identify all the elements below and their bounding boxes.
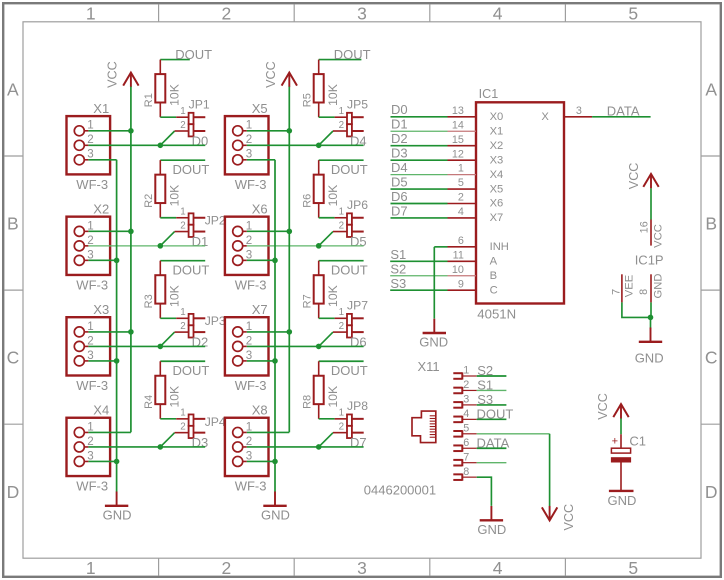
svg-text:D0: D0	[391, 102, 408, 117]
svg-text:WF-3: WF-3	[235, 378, 267, 393]
svg-text:X11: X11	[418, 359, 440, 374]
svg-text:2: 2	[246, 435, 252, 448]
svg-text:2: 2	[87, 334, 93, 347]
svg-text:X6: X6	[490, 198, 504, 210]
svg-text:4: 4	[493, 558, 503, 578]
svg-text:JP7: JP7	[347, 298, 368, 312]
svg-text:DOUT: DOUT	[173, 162, 210, 177]
svg-text:VCC: VCC	[562, 504, 576, 531]
svg-text:D7: D7	[350, 435, 367, 450]
svg-text:2: 2	[222, 4, 232, 24]
svg-text:4: 4	[458, 206, 464, 218]
svg-text:VCC: VCC	[627, 163, 641, 190]
svg-text:2: 2	[339, 120, 344, 131]
svg-text:X2: X2	[93, 201, 109, 216]
svg-text:DATA: DATA	[607, 103, 640, 118]
svg-text:JP8: JP8	[347, 399, 368, 413]
svg-text:10K: 10K	[167, 84, 181, 106]
svg-text:3: 3	[87, 349, 93, 362]
svg-text:DOUT: DOUT	[175, 47, 212, 62]
svg-text:R1: R1	[143, 93, 155, 107]
svg-text:WF-3: WF-3	[76, 378, 108, 393]
svg-text:B: B	[705, 214, 717, 234]
svg-text:DOUT: DOUT	[173, 363, 210, 378]
svg-text:D3: D3	[192, 435, 209, 450]
svg-text:DOUT: DOUT	[331, 263, 368, 278]
svg-text:3: 3	[246, 449, 252, 462]
svg-text:2: 2	[180, 321, 185, 332]
svg-text:9: 9	[458, 278, 464, 290]
svg-text:D4: D4	[350, 133, 367, 148]
svg-text:1: 1	[339, 106, 344, 117]
svg-text:5: 5	[458, 177, 464, 189]
svg-text:10K: 10K	[326, 84, 340, 106]
svg-text:X6: X6	[252, 201, 268, 216]
svg-text:X7: X7	[490, 212, 504, 224]
svg-text:R4: R4	[143, 395, 155, 409]
svg-text:D2: D2	[391, 131, 408, 146]
svg-text:S3: S3	[390, 276, 406, 291]
svg-text:S1: S1	[390, 247, 406, 262]
svg-text:1: 1	[87, 119, 93, 132]
svg-text:S2: S2	[477, 363, 493, 378]
svg-text:7: 7	[463, 451, 469, 463]
svg-text:GND: GND	[608, 493, 637, 508]
svg-text:8: 8	[463, 466, 469, 478]
svg-text:R2: R2	[143, 194, 155, 208]
svg-text:14: 14	[452, 119, 464, 131]
svg-text:2: 2	[222, 558, 232, 578]
svg-text:D0: D0	[192, 133, 209, 148]
svg-text:3: 3	[87, 148, 93, 161]
svg-text:X1: X1	[93, 101, 109, 116]
svg-text:+: +	[612, 436, 618, 448]
svg-text:VCC: VCC	[264, 61, 278, 88]
svg-text:JP3: JP3	[205, 314, 226, 328]
svg-text:X2: X2	[490, 140, 504, 152]
svg-text:1: 1	[339, 307, 344, 318]
svg-text:JP5: JP5	[347, 97, 368, 111]
svg-text:GND: GND	[103, 508, 132, 523]
svg-text:1: 1	[246, 320, 252, 333]
svg-text:3: 3	[357, 4, 367, 24]
svg-text:X5: X5	[252, 101, 268, 116]
svg-text:D7: D7	[391, 203, 408, 218]
svg-text:4: 4	[493, 4, 503, 24]
svg-text:10K: 10K	[167, 185, 181, 207]
svg-text:2: 2	[458, 192, 464, 204]
svg-text:D6: D6	[350, 335, 367, 350]
svg-text:1: 1	[246, 420, 252, 433]
svg-text:1: 1	[87, 320, 93, 333]
svg-text:JP1: JP1	[189, 97, 210, 111]
svg-text:S2: S2	[390, 261, 406, 276]
svg-text:B: B	[7, 214, 19, 234]
svg-text:IC1P: IC1P	[635, 252, 664, 267]
svg-text:JP4: JP4	[205, 415, 226, 429]
svg-text:3: 3	[463, 394, 469, 406]
svg-text:X3: X3	[93, 302, 109, 317]
svg-text:A: A	[705, 80, 717, 100]
svg-text:5: 5	[628, 4, 638, 24]
svg-text:JP2: JP2	[205, 214, 226, 228]
svg-text:2: 2	[87, 234, 93, 247]
svg-text:C: C	[490, 284, 498, 296]
svg-text:10K: 10K	[167, 285, 181, 307]
svg-text:JP6: JP6	[347, 198, 368, 212]
svg-text:D5: D5	[391, 174, 408, 189]
svg-text:1: 1	[463, 365, 469, 377]
svg-text:VCC: VCC	[653, 224, 665, 248]
svg-text:1: 1	[180, 307, 185, 318]
svg-text:4051N: 4051N	[477, 306, 516, 321]
svg-text:8: 8	[638, 289, 650, 295]
svg-text:X8: X8	[252, 403, 268, 418]
svg-text:B: B	[490, 270, 497, 282]
svg-text:3: 3	[246, 148, 252, 161]
svg-text:3: 3	[576, 105, 582, 117]
svg-text:X3: X3	[490, 154, 504, 166]
svg-text:2: 2	[246, 234, 252, 247]
svg-text:R6: R6	[302, 194, 314, 208]
svg-text:2: 2	[87, 133, 93, 146]
svg-text:1: 1	[458, 163, 464, 175]
svg-text:6: 6	[458, 235, 464, 247]
svg-text:INH: INH	[490, 241, 509, 253]
svg-text:DOUT: DOUT	[334, 47, 371, 62]
svg-text:A: A	[7, 80, 19, 100]
svg-text:3: 3	[246, 248, 252, 261]
svg-text:WF-3: WF-3	[235, 277, 267, 292]
svg-text:DOUT: DOUT	[331, 162, 368, 177]
svg-text:2: 2	[339, 220, 344, 231]
svg-text:15: 15	[452, 134, 464, 146]
svg-text:VCC: VCC	[106, 61, 120, 88]
svg-text:D1: D1	[192, 234, 209, 249]
svg-text:1: 1	[339, 207, 344, 218]
svg-text:3: 3	[246, 349, 252, 362]
svg-text:2: 2	[180, 220, 185, 231]
svg-text:C: C	[705, 348, 718, 368]
svg-text:DOUT: DOUT	[173, 263, 210, 278]
svg-text:GND: GND	[419, 335, 448, 350]
svg-text:7: 7	[611, 289, 623, 295]
svg-text:VCC: VCC	[596, 393, 610, 420]
svg-text:GND: GND	[261, 508, 290, 523]
svg-text:2: 2	[339, 321, 344, 332]
svg-text:1: 1	[339, 408, 344, 419]
svg-text:IC1: IC1	[479, 87, 499, 101]
svg-text:13: 13	[452, 105, 464, 117]
svg-text:1: 1	[87, 420, 93, 433]
svg-text:1: 1	[180, 207, 185, 218]
svg-text:16: 16	[639, 221, 651, 233]
svg-text:10K: 10K	[326, 285, 340, 307]
svg-text:DATA: DATA	[477, 435, 510, 450]
svg-text:GND: GND	[477, 522, 506, 537]
svg-text:R7: R7	[302, 294, 314, 308]
svg-text:10K: 10K	[167, 386, 181, 408]
svg-text:R3: R3	[143, 294, 155, 308]
svg-text:D5: D5	[350, 234, 367, 249]
svg-text:S3: S3	[477, 392, 493, 407]
svg-text:10: 10	[452, 264, 464, 276]
svg-text:3: 3	[87, 449, 93, 462]
svg-text:1: 1	[246, 119, 252, 132]
svg-text:1: 1	[86, 4, 96, 24]
svg-text:WF-3: WF-3	[76, 478, 108, 493]
svg-text:DOUT: DOUT	[477, 407, 514, 422]
svg-text:R5: R5	[302, 93, 314, 107]
svg-text:X7: X7	[252, 302, 268, 317]
svg-text:WF-3: WF-3	[235, 478, 267, 493]
svg-text:X1: X1	[490, 125, 504, 137]
svg-text:WF-3: WF-3	[76, 177, 108, 192]
svg-text:2: 2	[246, 334, 252, 347]
svg-text:1: 1	[180, 408, 185, 419]
svg-text:1: 1	[87, 219, 93, 232]
svg-text:D2: D2	[192, 335, 209, 350]
svg-text:WF-3: WF-3	[76, 277, 108, 292]
svg-text:10K: 10K	[326, 386, 340, 408]
svg-text:6: 6	[463, 437, 469, 449]
svg-text:D: D	[705, 482, 718, 502]
svg-text:GND: GND	[635, 350, 664, 365]
svg-text:D4: D4	[391, 160, 408, 175]
svg-text:2: 2	[180, 120, 185, 131]
svg-text:3: 3	[87, 248, 93, 261]
svg-text:2: 2	[463, 379, 469, 391]
svg-text:0446200001: 0446200001	[364, 483, 436, 498]
svg-text:1: 1	[86, 558, 96, 578]
svg-text:10K: 10K	[326, 185, 340, 207]
svg-text:DOUT: DOUT	[331, 363, 368, 378]
svg-text:X5: X5	[490, 183, 504, 195]
svg-text:WF-3: WF-3	[235, 177, 267, 192]
svg-text:12: 12	[452, 148, 464, 160]
svg-text:GND: GND	[653, 274, 665, 299]
svg-text:4: 4	[463, 408, 469, 420]
svg-text:X4: X4	[93, 403, 109, 418]
svg-text:D3: D3	[391, 146, 408, 161]
svg-text:2: 2	[87, 435, 93, 448]
svg-text:1: 1	[180, 106, 185, 117]
svg-text:5: 5	[463, 423, 469, 435]
svg-text:D: D	[7, 482, 20, 502]
svg-text:1: 1	[246, 219, 252, 232]
svg-text:A: A	[490, 256, 498, 268]
svg-text:X0: X0	[490, 111, 504, 123]
svg-text:3: 3	[357, 558, 367, 578]
svg-text:VEE: VEE	[624, 275, 636, 297]
svg-text:2: 2	[246, 133, 252, 146]
svg-text:2: 2	[180, 421, 185, 432]
svg-text:5: 5	[628, 558, 638, 578]
svg-text:C1: C1	[629, 433, 646, 448]
svg-text:C: C	[7, 348, 20, 368]
svg-text:R8: R8	[302, 395, 314, 409]
svg-text:2: 2	[339, 421, 344, 432]
svg-text:11: 11	[453, 249, 464, 261]
svg-text:D1: D1	[391, 117, 408, 132]
svg-text:D6: D6	[391, 189, 408, 204]
svg-text:S1: S1	[477, 378, 493, 393]
svg-text:X4: X4	[490, 169, 504, 181]
svg-text:X: X	[541, 111, 549, 123]
